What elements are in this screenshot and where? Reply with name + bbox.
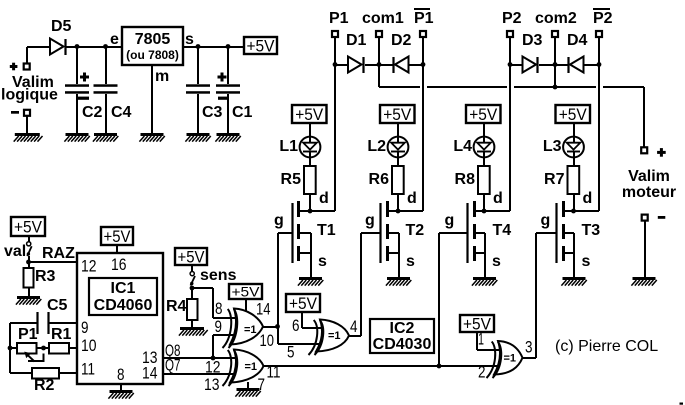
ground source T2 [387,277,410,280]
svg-text:d: d [407,190,417,207]
node output rail junction C3 [196,44,201,49]
node sens junction [191,286,193,288]
svg-text:14: 14 [142,364,158,383]
potentiometer P1 [10,347,17,349]
node com1 diode junction [377,62,382,67]
svg-text:Q7: Q7 [165,356,181,375]
wire resistor to drain of T3 [573,194,575,211]
svg-text:com1: com1 [362,10,404,27]
node input rail junction C2 [75,44,80,49]
svg-text:s: s [318,253,327,270]
node P1 diode junction [333,62,338,67]
transistor T4 MOSFET [466,203,468,263]
power flag +5V XOR3 pin 6 [286,294,320,312]
svg-text:logique: logique [1,87,58,104]
svg-text:13: 13 [204,375,220,394]
svg-text:moteur: moteur [622,184,676,201]
wire body lead T1 [299,232,311,234]
XOR gate U2D IC2 =1 [230,350,264,383]
wire T4 gate riser [438,233,440,366]
XOR gate U2C IC2 =1 [494,341,523,375]
ground Valim logique [15,133,40,136]
wire drain to column T2 [387,210,423,212]
svg-text:m: m [155,68,169,85]
svg-text:D5: D5 [51,18,72,35]
wire XOR3 output pin 4 to T2 gate [349,335,361,337]
svg-text:s: s [582,253,591,270]
svg-text:+5V: +5V [14,217,43,236]
terminal P1 inverted [420,31,426,37]
svg-text:s: s [492,253,501,270]
switch val [28,236,30,242]
svg-text:+5V: +5V [178,247,206,266]
power flag +5V channel T1 [292,105,327,123]
ground C1 [217,133,240,136]
resistor R3 [28,262,30,268]
wire gate lead T3 [536,232,557,234]
svg-text:RAZ: RAZ [42,245,75,262]
LED L4 [474,137,495,158]
transistor T3 MOSFET [555,203,557,263]
wire Valim moteur - to ground [644,221,646,277]
svg-text:P2: P2 [593,10,613,27]
wire drain to column T3 [563,210,599,212]
svg-text:=1: =1 [245,361,258,373]
capacitor C2 [76,47,78,84]
svg-text:CD4030: CD4030 [373,336,432,353]
svg-text:T1: T1 [317,222,336,239]
svg-text:+5V: +5V [104,227,132,246]
wire XOR1 output pin 10 [263,326,278,328]
wire regulator output s to +5V [183,46,244,48]
svg-text:s: s [406,253,415,270]
LED L1 [300,137,321,158]
svg-text:+5V: +5V [469,105,498,124]
node drain junction T1 [308,209,313,214]
wire left bias bus [9,323,11,373]
svg-text:P1: P1 [329,10,349,27]
wire resistor to drain of T1 [309,194,311,211]
svg-text:R6: R6 [369,171,390,188]
XOR gate U2B IC2 =1 [316,320,349,352]
switch sens [191,265,193,272]
svg-text:g: g [445,212,455,229]
terminal P2 inverted [596,31,602,37]
ground Valim moteur [633,277,656,280]
svg-text:R4: R4 [166,298,187,315]
svg-text:P1: P1 [414,10,434,27]
diode D3 [510,64,523,66]
wire Q8 output [163,357,236,359]
svg-text:12: 12 [81,257,97,276]
ground source T1 [299,277,322,280]
ground IC1 pin 8 [110,390,133,393]
wire LED to resistor R5 [309,157,311,166]
svg-text:g: g [365,212,375,229]
node XOR1 output junction T1 gate [275,324,280,329]
wire P2-inverted column [598,37,600,211]
svg-text:g: g [274,212,284,229]
svg-text:R2: R2 [34,377,55,394]
node drain junction T3 [571,209,576,214]
svg-text:11: 11 [81,360,95,379]
wire drain to column T4 [474,210,510,212]
svg-text:R7: R7 [544,171,565,188]
transistor T2 MOSFET [379,203,381,263]
wire body lead T3 [563,232,574,234]
svg-text:d: d [493,190,503,207]
svg-text:1: 1 [478,330,484,349]
wire +5V to XOR3 pin 6 [301,312,303,328]
svg-text:R1: R1 [51,326,72,343]
label IC1 CD4060 [89,278,157,315]
ground source T4 [473,277,496,280]
wire +5V to IC1 pin 16 [116,245,118,253]
wire body lead T4 [474,232,485,234]
node com2 diode junction [553,62,558,67]
svg-text:(c) Pierre COL: (c) Pierre COL [555,338,658,355]
power flag +5V sens [175,248,207,265]
wire com bus to Valim moteur + [379,86,420,88]
ground source T3 [563,277,586,280]
LED L3 [563,137,584,158]
node P2 diode junction [508,62,513,67]
ground R3 [17,296,40,299]
terminal Valim logique - [24,110,30,116]
node input rail junction C4 [103,44,108,49]
terminal Valim logique + [24,64,30,70]
potentiometer P1 wiper [28,354,44,362]
svg-text:=1: =1 [328,330,341,342]
svg-text:+5V: +5V [559,105,588,124]
wire +5V to XOR4 pin 1 [476,332,478,350]
power flag +5V XOR1 pin 14 [229,284,262,299]
wire +5V to LED L3 [573,123,575,142]
wire gate lead T1 [278,232,292,234]
svg-text:7: 7 [258,375,266,394]
transistor T1 MOSFET [291,203,293,263]
svg-text:g: g [541,212,551,229]
node P1pot left junction [8,346,13,351]
svg-text:D3: D3 [522,32,543,49]
wire P2 column [509,37,511,211]
XOR gate U2A IC2 =1 [230,309,263,345]
wire LED to resistor R7 [573,157,575,166]
svg-text:P1: P1 [18,326,38,343]
svg-text:IC2: IC2 [390,320,415,337]
svg-text:CD4060: CD4060 [94,297,153,314]
node drain junction T2 [396,209,401,214]
svg-text:=1: =1 [504,353,517,365]
svg-text:5: 5 [287,343,295,362]
svg-text:11: 11 [267,363,281,382]
capacitor C5 [10,322,37,324]
power flag +5V channel T3 [556,105,591,123]
wire RAZ to IC1 pin 12 [29,261,77,263]
wire XOR1 pin 9 [213,334,236,336]
svg-text:s: s [185,31,194,48]
wire source lead T2 [387,252,399,254]
wire T1 gate riser [277,233,279,344]
wire LED to resistor R8 [483,157,485,166]
power flag +5V XOR4 pin 1 [460,315,494,332]
svg-text:L4: L4 [453,138,472,155]
ground C3 [187,133,210,136]
svg-text:IC1: IC1 [111,280,136,297]
wire source lead T3 [563,252,574,254]
terminal com2 [552,31,558,37]
svg-text:T3: T3 [582,222,601,239]
wire Valim- to ground [26,116,28,133]
node output rail junction C1 [226,44,231,49]
svg-text:sens: sens [200,267,237,284]
wire com1 column [378,37,380,87]
wire XOR4 output pin 3 to T3 gate [523,357,536,359]
diode D5 [50,39,64,55]
diode D1 [335,64,348,66]
node drain junction T4 [482,209,487,214]
svg-text:9: 9 [81,318,89,337]
power flag +5V val [11,217,45,236]
svg-text:L2: L2 [367,138,386,155]
svg-text:D2: D2 [391,32,412,49]
capacitor C1 [227,47,229,84]
svg-text:L3: L3 [543,138,562,155]
resistor R4 [191,288,193,299]
node XOR2 output to T4 gate [437,364,442,369]
ground R4 [180,327,204,330]
wire +5V to LED L2 [397,123,399,142]
node R1 left junction [41,346,46,351]
node RAZ junction [28,256,30,262]
svg-text:e: e [110,31,119,48]
wire source lead T4 [474,252,485,254]
terminal P1 [332,31,338,37]
wire drain to column T1 [299,210,335,212]
svg-text:com2: com2 [535,10,577,27]
resistor R2 [10,372,32,374]
svg-text:C5: C5 [47,297,68,314]
svg-text:P2: P2 [502,10,522,27]
power flag +5V channel T2 [380,105,415,123]
mark page dash bottom right [680,403,684,405]
node P2-inverted diode junction [597,62,602,67]
svg-text:d: d [583,190,593,207]
IC U1 IC1 CD4060 outline [77,253,163,384]
wire gate lead T4 [439,232,468,234]
svg-text:T2: T2 [406,222,425,239]
resistor R6 [392,166,404,194]
ground C2 [66,133,89,136]
svg-text:C2: C2 [82,104,103,121]
wire XOR1 out to XOR3 pin 5 [278,343,322,345]
capacitor C4 [105,47,107,84]
svg-text:10: 10 [81,336,97,355]
svg-text:D4: D4 [567,32,588,49]
svg-text:2: 2 [478,363,486,382]
svg-text:7805: 7805 [135,31,171,48]
svg-text:R8: R8 [455,171,476,188]
ground XOR2 pin 7 [247,382,249,388]
regulator U1 7805 [122,27,183,65]
node com2 joins com bus [553,85,558,90]
svg-text:+5V: +5V [383,105,412,124]
svg-text:D1: D1 [346,32,367,49]
wire P1 column [334,37,336,211]
resistor R5 [304,166,316,194]
wire resistor to drain of T4 [483,194,485,211]
node P1-inverted diode junction [421,62,426,67]
wire +5V to LED L4 [483,123,485,142]
svg-text:+5V: +5V [289,294,318,313]
ground regulator m [141,133,164,136]
svg-text:+5V: +5V [232,284,261,300]
wire source lead T1 [299,252,311,254]
IC U2 IC2 CD4030 label box [370,319,434,353]
terminal com1 [376,31,382,37]
svg-text:10: 10 [260,331,275,350]
terminal Valim moteur - [642,215,648,221]
wire P1-inverted column [422,37,424,211]
wire resistor to drain of T2 [397,194,399,211]
diode D2 [379,64,394,66]
ground C4 [94,133,117,136]
wire com2 column [554,37,556,87]
svg-text:8: 8 [117,365,125,384]
wire sens to XOR1 pin 8 [192,287,213,289]
svg-text:C3: C3 [202,104,223,121]
terminal Valim moteur + [641,147,647,153]
svg-text:d: d [319,190,329,207]
svg-text:L1: L1 [279,138,298,155]
wire +5V to XOR1 pin 14 [245,299,247,314]
svg-text:val: val [4,243,26,260]
svg-text:3: 3 [525,338,533,357]
wire gate lead T2 [361,232,381,234]
wire +5V to LED L1 [309,123,311,142]
resistor R1 [49,343,69,354]
resistor R7 [568,166,580,194]
svg-text:C1: C1 [232,104,253,121]
svg-text:4: 4 [350,317,358,336]
svg-text:9: 9 [215,317,223,336]
wire IC1 pin 8 to ground [120,384,122,390]
wire Q7 output [163,373,236,375]
diode D4 [555,64,569,66]
terminal P2 [507,31,513,37]
wire Valim+ to D5 anode [27,46,50,48]
svg-text:6: 6 [292,316,300,335]
svg-text:Valim: Valim [628,168,670,185]
svg-text:T4: T4 [493,222,512,239]
power flag +5V main [244,37,277,54]
node Q8 to XOR pin 9 [211,356,216,361]
power flag +5V channel T4 [466,105,501,123]
svg-text:16: 16 [111,255,127,274]
svg-text:+5V: +5V [247,36,276,55]
svg-text:C4: C4 [111,104,132,121]
wire LED to resistor R6 [397,157,399,166]
wire XOR2 output pin 11 bus [264,365,500,367]
svg-text:+5V: +5V [295,105,324,124]
wire D5 cathode to regulator input e [66,46,122,48]
wire body lead T2 [387,232,399,234]
resistor R8 [478,166,490,194]
svg-text:8: 8 [215,299,223,318]
svg-text:R3: R3 [35,268,56,285]
capacitor C3 [197,47,199,84]
svg-text:(ou 7808): (ou 7808) [126,48,179,62]
svg-text:14: 14 [256,300,271,319]
power flag +5V IC1 pin 16 [101,227,133,245]
svg-text:=1: =1 [244,324,257,336]
svg-text:12: 12 [205,358,221,377]
svg-text:R5: R5 [281,171,302,188]
LED L2 [388,137,409,158]
wire regulator m to ground [151,65,153,133]
